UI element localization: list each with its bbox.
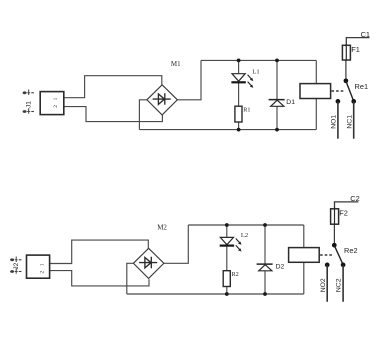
bridge rectifier M1 diamond body [147, 85, 178, 115]
bridge rectifier M1 internal diode [153, 93, 171, 105]
svg-text:NC2: NC2 [336, 278, 343, 292]
wire J2 pin2 to bridge M2 bottom corner (AC input 2) [50, 271, 149, 286]
connector J2 side label polarity mark top [10, 257, 21, 263]
svg-text:NO2: NO2 [320, 278, 327, 292]
wire DC- bottom rail (net GND1) [139, 129, 316, 131]
svg-text:C1: C1 [361, 30, 370, 39]
fuse F2 internal element line [334, 208, 336, 225]
diode D1 triangle [271, 100, 284, 106]
relay Re2 common pole node [332, 243, 337, 248]
wire LED L1 / resistor R1 branch [238, 60, 240, 129]
svg-text:L2: L2 [241, 232, 248, 239]
wire J1 pin1 to bridge M1 top corner (AC input 1) [64, 76, 162, 98]
svg-text:F2: F2 [339, 209, 348, 218]
wire bridge M1 right corner up to DC+ top rail [177, 60, 201, 99]
wire relay Re2 coil bottom to DC- rail [303, 262, 305, 294]
relay Re2 NC contact node [341, 263, 346, 268]
wire J2 pin1 to bridge M2 top corner (AC input 1) [50, 240, 149, 263]
LED L2 emission arrow 2 [236, 245, 240, 249]
relay Re2 coil body [289, 248, 320, 263]
relay Re1 NO contact node [336, 99, 341, 104]
relay Re1 NC contact node [351, 99, 356, 104]
svg-text:M2: M2 [157, 224, 167, 232]
svg-text:D1: D1 [286, 99, 295, 106]
wire DC+ top rail (net VCC1) [201, 59, 316, 61]
connector J1 side label polarity mark top [23, 90, 34, 96]
svg-text:NC1: NC1 [347, 115, 354, 129]
svg-text:2: 2 [40, 271, 46, 274]
junction node: D2 branch on DC- rail 2 [263, 292, 267, 296]
wire relay Re1 common pole to fuse F1 [345, 61, 347, 81]
LED L1 emission arrow 1 [248, 75, 252, 79]
relay Re1 switch lever [346, 81, 354, 101]
svg-text:M1: M1 [171, 60, 181, 68]
LED L2 triangle [220, 237, 233, 244]
junction node: D2 branch on DC+ rail 2 [263, 223, 267, 227]
connector J2 side label polarity mark bottom [10, 268, 21, 274]
LED L1 cathode bar [231, 81, 245, 83]
wire LED L2 / resistor R2 branch [226, 225, 228, 294]
junction node: LED branch on DC+ rail [237, 59, 241, 63]
bridge rectifier M2 internal diode [139, 257, 157, 269]
fuse F1 body [342, 45, 350, 60]
svg-text:J1: J1 [26, 101, 33, 108]
wire relay Re2 coil top to DC+ rail [303, 225, 305, 248]
wire diode D1 branch [276, 60, 278, 129]
wire fuse F2 to terminal C2 [335, 202, 359, 208]
wire NC1 terminal [353, 101, 355, 138]
svg-text:NO1: NO1 [331, 115, 338, 129]
wire bridge M1 left corner down to DC- bottom rail [139, 100, 147, 130]
connector J1 body [40, 92, 64, 115]
svg-text:2: 2 [53, 105, 59, 108]
connector J1 side label polarity mark bottom [23, 108, 34, 114]
relay Re1 actuation dashed link [332, 90, 345, 92]
wire DC+ top rail (net VCC2) [188, 224, 303, 226]
wire DC- bottom rail (net GND2) [127, 293, 304, 295]
wire relay Re1 coil bottom to DC- rail [315, 98, 317, 129]
LED L2 cathode bar [220, 245, 234, 247]
junction node: D1 branch on DC+ rail [275, 59, 279, 63]
wire relay Re2 common pole to fuse F2 [333, 224, 335, 245]
wire J1 pin2 to bridge M1 bottom corner (AC input 2) [64, 107, 163, 122]
svg-text:R1: R1 [243, 106, 250, 113]
wire relay Re1 coil top to DC+ rail [315, 60, 317, 83]
resistor R1 body [235, 106, 242, 122]
junction node: LED branch on DC- rail 2 [225, 292, 229, 296]
junction node: LED branch on DC- rail [237, 128, 241, 132]
LED L1 triangle [232, 74, 245, 82]
relay Re2 NO contact node [325, 263, 330, 268]
wire NC2 terminal [342, 265, 344, 302]
svg-text:R2: R2 [232, 271, 239, 278]
wire NO2 terminal [326, 265, 328, 302]
wire NO1 terminal [337, 101, 339, 138]
svg-text:1: 1 [53, 97, 59, 100]
svg-text:Re2: Re2 [344, 246, 358, 255]
wire fuse F1 to terminal C1 [346, 38, 369, 45]
svg-text:L1: L1 [252, 68, 259, 75]
fuse F2 body [331, 209, 339, 224]
fuse F1 internal element line [345, 44, 347, 61]
resistor R2 body [223, 271, 230, 287]
junction node: LED branch on DC+ rail 2 [225, 223, 229, 227]
svg-text:Re1: Re1 [355, 82, 369, 91]
wire diode D2 branch [264, 225, 266, 294]
svg-text:D2: D2 [276, 264, 285, 271]
junction node: D1 branch on DC- rail [275, 128, 279, 132]
relay Re1 common pole node [344, 78, 349, 83]
relay Re2 actuation dashed link [320, 254, 332, 256]
wire bridge M2 right corner up to DC+ top rail [164, 225, 188, 263]
diode D2 cathode bar [257, 263, 273, 265]
relay Re2 switch lever [334, 245, 343, 264]
connector J2 body [27, 255, 50, 278]
svg-text:F1: F1 [351, 45, 360, 54]
LED L2 emission arrow 1 [236, 239, 240, 243]
relay Re1 coil body [300, 84, 331, 99]
diode D1 cathode bar [269, 99, 285, 101]
svg-text:1: 1 [40, 263, 46, 266]
LED L1 emission arrow 2 [248, 82, 252, 86]
svg-text:C2: C2 [350, 194, 359, 203]
wire bridge M2 left corner down to DC- bottom rail [127, 263, 134, 294]
bridge rectifier M2 diamond body [133, 248, 164, 278]
diode D2 triangle [259, 265, 272, 271]
